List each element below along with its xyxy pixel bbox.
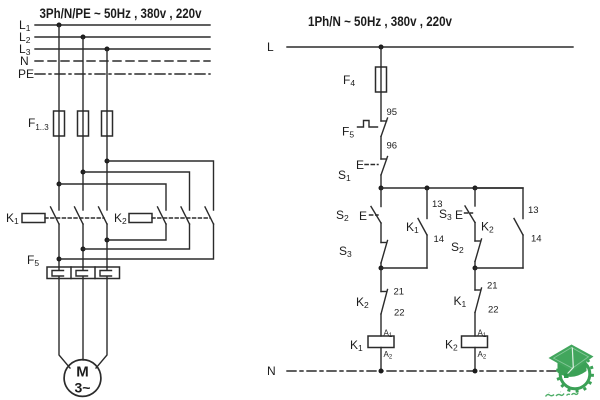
wire motor lead V — [82, 279, 84, 361]
node phase2 join — [81, 247, 86, 252]
svg-text:96: 96 — [387, 141, 398, 152]
K1 linkage dashed line — [45, 217, 104, 219]
wire bus to S2 — [380, 188, 382, 207]
node L3 tap — [105, 47, 110, 52]
wire tap phase3 to K2 pole3 — [107, 161, 214, 210]
F5 thermal actuator symbol — [358, 121, 378, 128]
wire K2 NC to K1 coil — [380, 314, 382, 336]
wire phase3 drop to fuse — [106, 49, 108, 111]
wire K1 NC to K2 coil — [474, 313, 476, 337]
svg-text:E: E — [356, 158, 364, 172]
wire K2 pole1 output to phase3 — [107, 224, 166, 240]
wire K1 pole3 output down — [106, 224, 108, 267]
fuse F3 — [102, 111, 113, 136]
node K1-aux branch tap — [425, 186, 430, 191]
S3 pushbutton actuator E — [455, 208, 473, 222]
motor M 3~ — [64, 360, 101, 397]
svg-text:E: E — [455, 208, 463, 222]
wire bus to K1 aux — [426, 188, 428, 219]
K1 interlock NC contact — [475, 288, 482, 313]
node L tap — [379, 45, 384, 50]
wire S3 to S2 (branch2) — [474, 223, 476, 242]
wire K1 pole2 output down — [82, 224, 84, 267]
fuse F1 — [54, 111, 65, 136]
node tap phase3 to K2 — [105, 159, 110, 164]
wire K1 coil to N — [380, 348, 382, 372]
svg-text:13: 13 — [528, 205, 539, 216]
node L1 tap — [57, 23, 62, 28]
wire node B to K2 NC — [380, 268, 382, 292]
K1 main contact pole2 — [75, 207, 84, 224]
S1 pushbutton actuator E — [356, 158, 378, 172]
wire K2 pole2 output to phase2 — [83, 224, 190, 249]
wire F4 to F5 contact — [380, 92, 382, 121]
wire phase3 fuse to K1 contact — [106, 136, 108, 210]
K2 aux NO contact — [514, 219, 523, 236]
contactor K1 operator box — [22, 214, 45, 223]
F5 heater element 2 — [76, 267, 88, 279]
node B (hold-in join) — [379, 266, 384, 271]
wire node C to K2 aux — [475, 267, 523, 269]
node tap phase1 to K2 — [57, 182, 62, 187]
wire L to F4 — [380, 47, 382, 67]
watermark logo: graduation cap over gear — [546, 345, 594, 397]
svg-text:14: 14 — [434, 234, 445, 245]
wire motor lead U — [59, 279, 70, 369]
node K2 coil on N — [473, 369, 478, 374]
line L (control bus) — [287, 46, 573, 48]
wire S1 to node A — [380, 175, 382, 188]
coil K1 — [368, 336, 394, 348]
contactor K2 operator box — [129, 214, 152, 223]
svg-text:21: 21 — [394, 287, 405, 298]
wire phase1 fuse to K1 contact — [58, 136, 60, 210]
fuse F4 — [376, 67, 387, 92]
svg-text:14: 14 — [531, 234, 542, 245]
svg-text:22: 22 — [488, 305, 499, 316]
svg-text:M: M — [76, 364, 89, 381]
bus line PE dash-dot — [35, 73, 210, 75]
wire node B to K1 aux — [381, 267, 427, 269]
bus line L1 — [35, 24, 210, 26]
wire S2 to node C — [474, 262, 476, 269]
node tap phase2 to K2 — [81, 170, 86, 175]
svg-text:3~: 3~ — [75, 380, 91, 396]
node L2 tap — [81, 35, 86, 40]
start button S3 NO contact — [465, 206, 475, 223]
K1 main contact pole1 — [51, 207, 60, 224]
svg-text:E: E — [359, 209, 367, 223]
wire bus corner to K2 aux — [475, 188, 523, 219]
S2 pushbutton actuator E — [359, 209, 378, 223]
line N (control bus, dashed) — [287, 370, 558, 372]
wire tap phase1 to K2 pole1 — [59, 184, 166, 210]
wire K2 pole3 output to phase1 — [59, 224, 214, 259]
K2 main contact pole2 — [181, 207, 190, 224]
coil K2 — [462, 336, 488, 348]
svg-text:21: 21 — [487, 281, 498, 292]
svg-text:1Ph/N ~ 50Hz , 380v , 220v: 1Ph/N ~ 50Hz , 380v , 220v — [308, 14, 452, 29]
banner script text — [546, 391, 579, 397]
bus line N dashed — [35, 60, 210, 62]
wire K2 aux down — [522, 235, 524, 268]
wire phase2 drop to fuse — [82, 37, 84, 111]
K2 interlock NC contact — [381, 290, 388, 315]
svg-text:95: 95 — [387, 107, 398, 118]
wire F5 to S1 — [380, 137, 382, 160]
wire K2 coil to N — [474, 348, 476, 372]
wire tap phase2 to K2 pole2 — [83, 172, 190, 210]
wire S3 to node B — [380, 263, 382, 268]
wire branch bus — [381, 187, 523, 189]
K1 main contact pole3 — [99, 207, 108, 224]
start button S2 NO contact — [371, 207, 381, 224]
wire phase2 fuse to K1 contact — [82, 136, 84, 210]
overload relay F5 body — [47, 267, 120, 279]
K2 main contact pole3 — [205, 207, 214, 224]
bus line L2 — [35, 36, 210, 38]
bus line L3 — [35, 48, 210, 50]
K2 main contact pole1 — [158, 207, 167, 224]
svg-text:L: L — [267, 40, 274, 54]
node C (hold-in join branch2) — [473, 266, 478, 271]
wire K1 aux down — [426, 235, 428, 268]
K1 aux NO contact — [418, 219, 427, 236]
wire S2 to S3 — [380, 223, 382, 243]
cap tassel cord — [567, 348, 574, 375]
wire node C to K1 NC — [474, 268, 476, 290]
wire bus to S3 (branch2) — [474, 188, 476, 206]
svg-text:PE: PE — [18, 67, 34, 81]
cap base band under board — [558, 360, 587, 377]
K2 linkage dashed line — [152, 217, 210, 219]
F5 heater element 3 — [100, 267, 112, 279]
button S3 NC contact — [381, 241, 388, 264]
node K1 coil on N — [379, 369, 384, 374]
wire K1 pole1 output down — [58, 224, 60, 267]
wire motor lead W — [96, 279, 107, 369]
stop button S1 NC contact — [381, 157, 388, 176]
button S2 NC contact (branch2) — [475, 239, 482, 262]
svg-text:3Ph/N/PE ~ 50Hz , 380v , 220v: 3Ph/N/PE ~ 50Hz , 380v , 220v — [40, 6, 202, 21]
node phase3 join — [105, 238, 110, 243]
F5 NC contact — [381, 118, 388, 137]
node A (branch bus left) — [379, 186, 384, 191]
F5 heater element 1 — [52, 267, 64, 279]
svg-text:N: N — [267, 364, 276, 378]
node phase1 join — [57, 257, 62, 262]
fuse F2 — [78, 111, 89, 136]
node branch2 tap — [473, 186, 478, 191]
gear ring with teeth — [556, 359, 594, 392]
cap board — [549, 345, 594, 372]
svg-text:N: N — [20, 54, 29, 68]
svg-text:22: 22 — [394, 308, 405, 319]
wire phase1 drop to fuse — [58, 25, 60, 111]
